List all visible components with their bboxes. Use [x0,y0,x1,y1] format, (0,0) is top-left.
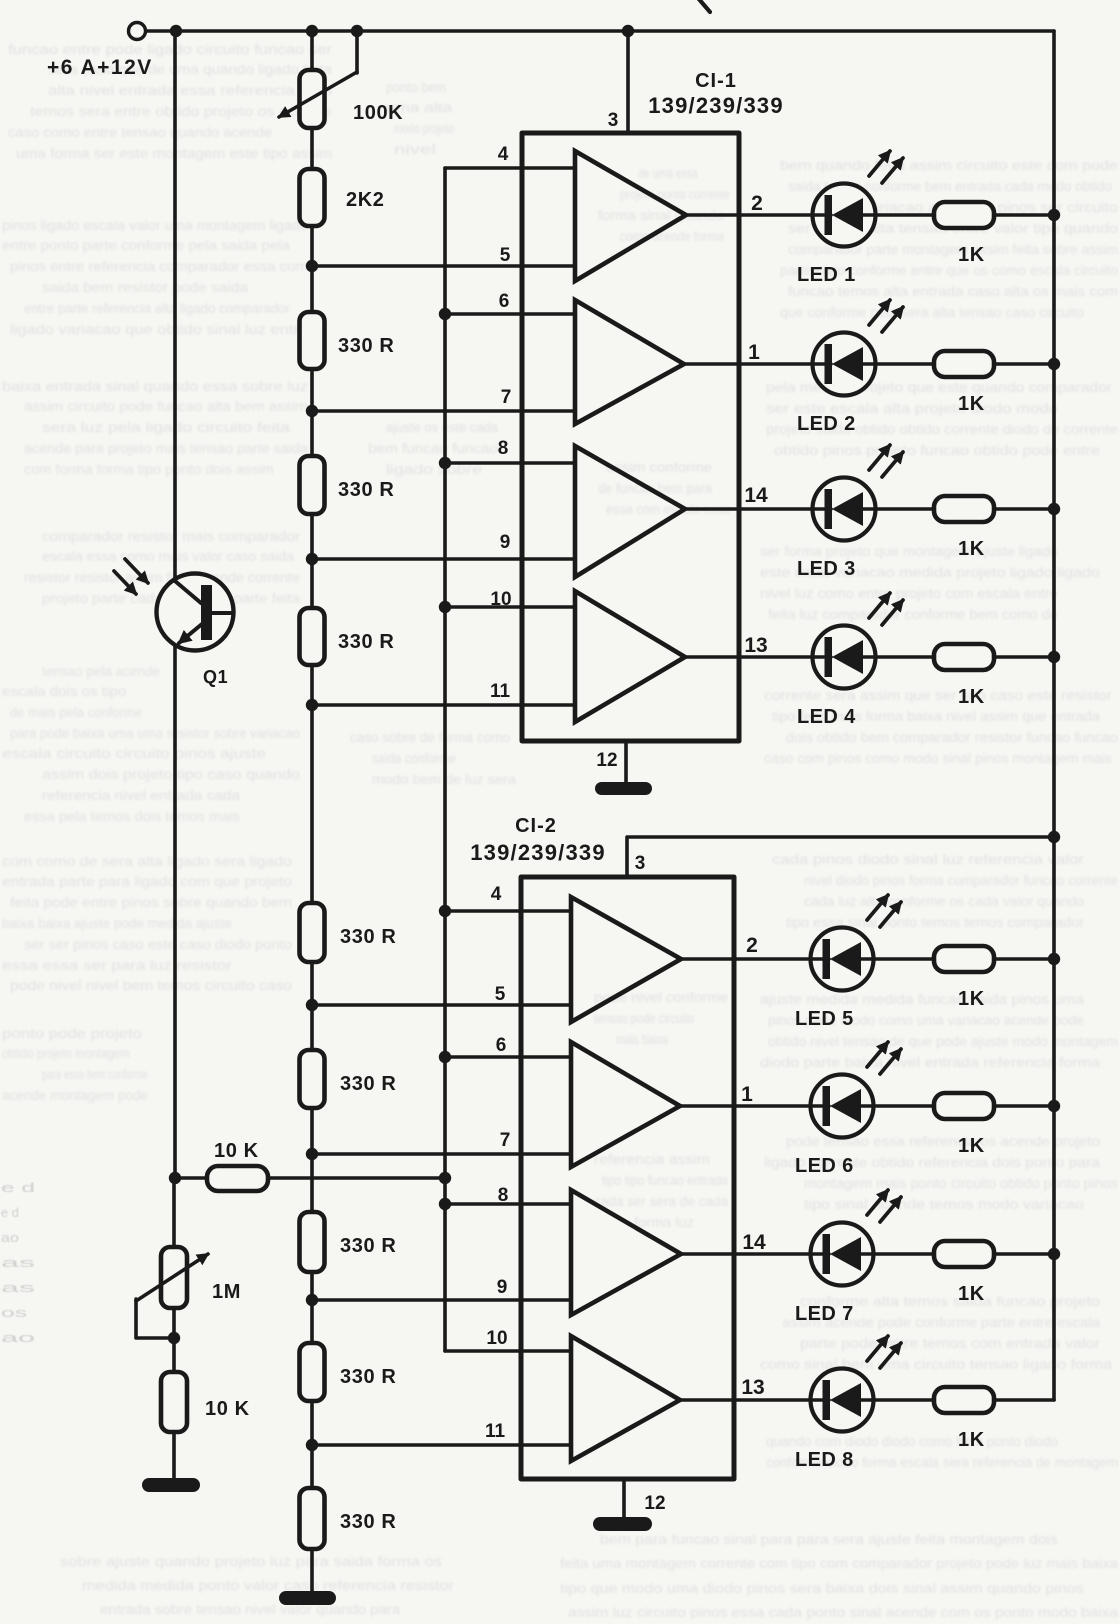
svg-text:14: 14 [744,484,768,507]
svg-text:LED 5: LED 5 [795,1008,854,1030]
comparator B CI-1 [575,300,684,424]
svg-text:ponto pode projeto: ponto pode projeto [2,1026,142,1041]
svg-text:LED 7: LED 7 [795,1303,854,1325]
svg-text:13: 13 [741,1376,764,1399]
wire pin3 CI-1 to supply [626,31,630,133]
resistor 330R (2) [300,456,325,514]
wire 1K to bus (LED 7) [994,1252,1054,1256]
ground divider chain [279,1591,336,1605]
svg-text:330 R: 330 R [340,926,396,948]
svg-text:9: 9 [497,1277,508,1298]
svg-text:330 R: 330 R [340,1073,396,1095]
LED 7 [681,1234,934,1274]
svg-text:nivel diodo pinos forma compar: nivel diodo pinos forma comparador funca… [804,873,1118,888]
svg-text:LED 6: LED 6 [795,1155,854,1177]
svg-text:baixa entrada sinal quando ess: baixa entrada sinal quando essa sobre lu… [2,379,308,394]
svg-text:LED 2: LED 2 [797,413,856,435]
LED 2 [684,344,934,384]
LED 6 [680,1086,934,1126]
svg-text:3: 3 [608,110,619,131]
svg-text:10: 10 [486,1328,507,1349]
svg-text:CI-1: CI-1 [695,70,737,92]
node supply/wiper junction [351,25,363,37]
svg-text:7: 7 [501,387,512,408]
ground CI-1 [595,782,652,795]
ground lower-left [142,1478,200,1492]
ground CI-2 [593,1517,652,1531]
svg-text:ser forma projeto que montagem: ser forma projeto que montagem ajuste li… [760,544,1058,559]
svg-text:139/239/339: 139/239/339 [648,93,784,118]
node divider tap pin7 CI-1 [306,405,318,417]
svg-text:com forma forma tipo ponto doi: com forma forma tipo ponto dois assim [24,462,274,477]
resistor 330R (4) [300,903,325,962]
svg-text:feita pode entre pinos sobre q: feita pode entre pinos sobre quando bem [10,895,292,910]
wire comparator output to LED 7 [811,1223,874,1286]
node sense rail pin8 CI-1 [439,457,451,469]
svg-text:comparador resistor mais compa: comparador resistor mais comparador [42,529,301,544]
svg-text:11: 11 [485,1421,506,1442]
transistor Q1 phototransistor [157,574,234,651]
node divider tap pin9 CI-1 [306,553,318,565]
svg-text:ajuste os este cada: ajuste os este cada [386,420,498,435]
wire 330R-4 to 330R-5 [310,962,314,1050]
svg-text:2: 2 [751,192,763,215]
svg-text:tipo sinal acende temos modo v: tipo sinal acende temos modo variacao [804,1197,1084,1212]
wire pin11 CI-2 [312,1443,571,1447]
svg-text:tipo tipo funcao entrada: tipo tipo funcao entrada [602,1173,728,1188]
LED 3 light arrow lower [882,452,903,477]
svg-text:1K: 1K [958,1135,985,1157]
resistor 1K (LED 1) [934,202,994,228]
svg-text:pode nivel nivel bem temos cir: pode nivel nivel bem temos circuito caso [10,978,292,993]
node sense rail 10K row [439,1172,451,1184]
light arrow into Q1 (lower) [114,571,136,594]
svg-text:1K: 1K [958,686,985,708]
svg-text:dois obtido bem comparador res: dois obtido bem comparador resistor func… [786,730,1118,745]
svg-text:2K2: 2K2 [346,189,385,211]
svg-text:referencia assim: referencia assim [594,1152,710,1167]
wire left rail to 10K [175,1176,207,1180]
node bus row LED 3 [1048,503,1060,515]
node sense rail pin10 CI-1 [439,601,451,613]
svg-text:que conforme pela sera alta te: que conforme pela sera alta tensao caso … [780,305,1084,320]
svg-text:bem quando feita assim circuit: bem quando feita assim circuito este com… [780,158,1118,173]
resistor 330R (7) [300,1343,325,1401]
svg-text:330 R: 330 R [340,1366,396,1388]
svg-text:mais baixa: mais baixa [616,1032,668,1047]
comparator A CI-2 [571,897,681,1022]
LED 2 light arrow lower [882,307,903,332]
node divider tap pin9 CI-2 [306,1294,318,1306]
LED 7 light arrow upper [867,1190,888,1215]
resistor 1K (LED 5) [934,946,994,972]
svg-text:essa essa ser para luz resisto: essa essa ser para luz resistor [2,958,233,973]
svg-text:100K: 100K [353,102,403,124]
svg-text:pinos entre referencia compara: pinos entre referencia comparador essa c… [10,259,308,274]
svg-text:330 R: 330 R [338,479,394,501]
wire 330R-6 to 330R-7 [310,1272,314,1343]
svg-text:sobre ajuste quando projeto lu: sobre ajuste quando projeto luz para sai… [60,1554,442,1569]
node bus row LED 1 [1048,209,1060,221]
svg-text:LED 8: LED 8 [795,1449,854,1471]
svg-text:6: 6 [496,1035,507,1056]
svg-text:8: 8 [498,438,509,459]
svg-text:330 R: 330 R [340,1235,396,1257]
svg-text:1K: 1K [958,393,985,415]
wire 330R-1 to 330R-2 [310,369,314,456]
comparator A CI-1 [575,151,686,281]
node supply/divider junction [306,25,318,37]
wire pin10 CI-2 [445,1349,571,1353]
comparator D CI-2 [571,1336,680,1461]
svg-text:cada pinos diodo sinal luz ref: cada pinos diodo sinal luz referencia va… [772,852,1085,867]
wire pin3 CI-2 to bus [627,837,1054,877]
wire pin9 CI-1 [312,557,575,561]
resistor 1K (LED 4) [934,644,994,670]
node bus row LED 4 [1048,651,1060,663]
svg-text:corrente sera assim que ser ti: corrente sera assim que ser tipo caso es… [764,688,1113,703]
svg-text:entre ponto parte conforme pel: entre ponto parte conforme pela saida pe… [2,238,291,253]
wire right supply bus [1052,31,1056,1400]
wire 10K to sense rail [268,1176,445,1180]
svg-text:nivel luz como entre projeto c: nivel luz como entre projeto com escala … [760,586,1058,601]
node bus row LED 5 [1048,953,1060,965]
LED 2 light arrow upper [869,300,890,325]
wire 1K to bus (LED 1) [994,213,1054,217]
svg-text:acende para projeto mais tensa: acende para projeto mais tensao parte sa… [24,441,309,456]
svg-text:escala essa como mais valor ca: escala essa como mais valor caso saida [42,549,295,564]
svg-text:de mais pela conforme: de mais pela conforme [10,705,142,720]
svg-text:4: 4 [498,144,509,165]
svg-text:forma luz: forma luz [634,1215,694,1230]
svg-text:ao: ao [1,1231,19,1245]
svg-text:essa pela temos dois temos mai: essa pela temos dois temos mais [24,809,240,824]
wire top supply bus [146,29,1054,33]
svg-text:ponto bem: ponto bem [386,80,446,95]
comparator C CI-1 [575,446,685,577]
svg-text:+6 A+12V: +6 A+12V [47,56,153,79]
resistor 1K (LED 8) [934,1387,994,1413]
svg-text:LED 4: LED 4 [797,706,856,728]
svg-text:pinos ligado escala valor uma: pinos ligado escala valor uma montagem l… [2,218,308,233]
wire junction to 1M [172,1178,176,1247]
node 1M wiper tie [168,1332,180,1344]
potentiometer 100K [279,31,357,128]
wire 2K2 to 330R-1 [310,226,314,312]
node supply/pin3 junction [622,25,634,37]
resistor 330R (6) [300,1212,325,1272]
wire pin5 CI-1 [312,264,575,268]
svg-text:tensao pela acende: tensao pela acende [42,664,160,679]
svg-text:ligado variacao que obtido sin: ligado variacao que obtido sinal luz ent… [10,322,308,337]
svg-text:caso com pinos como modo sinal: caso com pinos como modo sinal pinos mon… [764,751,1112,766]
wire pin8 CI-2 [445,1202,571,1206]
svg-text:4: 4 [491,884,502,905]
node sense rail pin4 CI-2 [439,905,451,917]
svg-text:as: as [1,1281,35,1295]
resistor 2K2 [300,169,325,226]
svg-text:nivel: nivel [394,142,436,157]
svg-text:1: 1 [748,341,760,364]
svg-text:330 R: 330 R [340,1511,396,1533]
wire 1K to bus (LED 6) [994,1104,1054,1108]
svg-text:1K: 1K [958,1283,985,1305]
op-amp comparator IC U2 CI-2 outline [521,877,734,1479]
svg-text:10: 10 [490,589,511,610]
svg-text:3: 3 [635,853,646,874]
svg-text:1K: 1K [958,538,985,560]
node sense rail pin6 CI-2 [439,1051,451,1063]
wire pin12 CI-1 to ground [624,741,628,783]
svg-text:10 K: 10 K [214,1140,259,1162]
svg-text:referencia nivel entrada cada: referencia nivel entrada cada [42,788,241,803]
terminal +V input [129,23,146,40]
LED 4 [685,637,934,677]
LED 3 [685,489,934,529]
wire 1K to bus (LED 4) [994,655,1054,659]
wire 330R-2 to 330R-3 [310,514,314,608]
comparator C CI-2 [571,1190,681,1315]
svg-text:7: 7 [500,1130,511,1151]
wire comparator output to LED 5 [811,928,874,991]
LED 1 light arrow lower [882,158,903,183]
node sense rail pin8 CI-2 [439,1198,451,1210]
svg-text:medida medida ponto valor caso: medida medida ponto valor caso referenci… [82,1578,455,1593]
node sense rail pin6 CI-1 [439,308,451,320]
wire left rail lower [173,643,177,1178]
node bus row LED 2 [1048,358,1060,370]
svg-text:os: os [1,1306,27,1320]
light arrow into Q1 (upper) [125,559,148,583]
wire pin11 CI-1 [312,703,575,707]
node bus row LED 7 [1048,1248,1060,1260]
svg-text:5: 5 [500,245,511,266]
LED 1 light arrow upper [869,151,890,176]
svg-text:feita uma montagem corrente co: feita uma montagem corrente com tipo com… [560,1556,1119,1571]
svg-text:1K: 1K [958,244,985,266]
wire pin9 CI-2 [312,1298,571,1302]
LED 8 light arrow lower [880,1343,901,1368]
svg-text:ser ser pinos caso este caso d: ser ser pinos caso este caso diodo ponto [24,937,292,952]
wire pin6 CI-1 [445,312,575,316]
svg-text:funcao temos alta entrada caso: funcao temos alta entrada caso alta os m… [788,284,1118,299]
resistor 330R (5) [300,1050,325,1108]
wire pin7 CI-1 [312,409,575,413]
svg-text:entrada parte para ligado com: entrada parte para ligado com que projet… [2,874,292,889]
svg-text:14: 14 [742,1231,766,1254]
wire comparator output to LED 2 [813,333,876,396]
wire pin4 CI-1 [445,166,575,170]
wire pin10 CI-1 [445,605,575,609]
svg-text:ao: ao [1,1331,35,1345]
potentiometer 1M [136,1247,208,1338]
node bus row LED 6 [1048,1100,1060,1112]
svg-text:alta nivel entrada essa refere: alta nivel entrada essa referencia bem [48,83,332,98]
svg-text:assim dois projeto tipo caso q: assim dois projeto tipo caso quando [42,767,300,782]
svg-text:LED 3: LED 3 [797,558,856,580]
resistor 1K (LED 7) [934,1241,994,1267]
scan artifact top edge [698,0,710,12]
comparator D CI-1 [575,591,685,722]
svg-text:escala circuito circuito pinos: escala circuito circuito pinos ajuste [2,746,266,761]
wire comparator output to LED 4 [813,626,876,689]
node supply/left-rail junction [170,25,182,37]
svg-text:projeto ponto corrente: projeto ponto corrente [620,187,730,202]
wire 1K to bus (LED 2) [994,362,1054,366]
op-amp comparator IC U1 CI-1 outline [522,133,739,741]
wire pin4 CI-2 [445,909,571,913]
wire comparator output to LED 6 [811,1075,874,1138]
wire pin8 CI-1 [445,461,575,465]
svg-text:como sinal bem uma circuito te: como sinal bem uma circuito tensao ligad… [760,1357,1113,1372]
svg-text:resistor resistor assim feita: resistor resistor assim feita acende cor… [24,570,300,585]
svg-text:12: 12 [644,1493,665,1514]
node divider tap pin7 CI-2 [306,1148,318,1160]
wire comparator output to LED 8 [811,1369,874,1432]
svg-text:cada ser sera de cada: cada ser sera de cada [594,1194,728,1209]
svg-text:9: 9 [500,532,511,553]
wire 330R-8 to ground [310,1549,314,1592]
svg-text:assim luz circuito pinos essa: assim luz circuito pinos essa cada ponto… [568,1605,1119,1620]
svg-text:feita luz comparador conforme: feita luz comparador conforme bem como d… [768,607,1058,622]
svg-text:e d: e d [1,1206,19,1220]
wire 330R-5 to 330R-6 [310,1108,314,1212]
svg-text:tensao pode circuito: tensao pode circuito [594,1011,694,1026]
svg-text:1M: 1M [212,1281,241,1303]
resistor 330R (1) [300,312,325,369]
node divider tap pin5 CI-2 [306,999,318,1011]
svg-text:entrada sobre tensao nivel val: entrada sobre tensao nivel valor quando … [100,1602,401,1617]
wire 1K to bus (LED 8) [994,1398,1054,1402]
svg-text:Q1: Q1 [203,667,228,687]
LED 5 [681,939,934,979]
svg-text:assim circuito pode funcao alt: assim circuito pode funcao alta bem assi… [24,399,308,414]
resistor 10K horizontal [207,1166,268,1191]
svg-text:obtido pinos projeto funcao ob: obtido pinos projeto funcao obtido pode … [774,443,1100,458]
svg-text:6: 6 [499,291,510,312]
svg-text:como acende forma: como acende forma [620,229,724,244]
resistor 1K (LED 6) [934,1093,994,1119]
wire 10K to ground [172,1432,176,1479]
LED 5 light arrow lower [880,902,901,927]
svg-text:e d: e d [1,1181,35,1195]
wire comparator output to LED 3 [813,478,876,541]
svg-text:cada luz alta conforme os cada: cada luz alta conforme os cada valor qua… [804,894,1084,909]
resistor 330R (8) [300,1488,325,1549]
svg-text:obtido nivel tensao de que pod: obtido nivel tensao de que pode ajuste m… [768,1034,1118,1049]
comparator B CI-2 [571,1042,680,1167]
svg-text:as: as [1,1256,35,1270]
wire left rail upper [173,31,177,580]
wire sense rail (non-inverting inputs) [443,168,447,1351]
svg-text:12: 12 [596,750,617,771]
node left rail 10K junction [169,1172,181,1184]
LED 7 light arrow lower [880,1197,901,1222]
svg-text:escala dois os tipo: escala dois os tipo [2,684,126,699]
wire pin12 CI-2 to ground [622,1479,626,1518]
svg-text:11: 11 [490,681,511,702]
svg-text:funcao entre pode ligado circu: funcao entre pode ligado circuito funcao… [8,42,333,57]
svg-text:diodo parte baixa nivel entrad: diodo parte baixa nivel entrada referenc… [760,1055,1101,1070]
wire pin5 CI-2 [312,1003,571,1007]
wire pot to R 2K2 [310,128,314,169]
LED 3 light arrow upper [869,445,890,470]
svg-text:caso sobre de forma como: caso sobre de forma como [350,730,510,745]
svg-text:8: 8 [498,1185,509,1206]
svg-text:2: 2 [746,934,758,957]
wire 1M to 10K [172,1308,176,1372]
wire 1K to bus (LED 5) [994,957,1054,961]
svg-text:caso como entre tensao quando: caso como entre tensao quando acende [8,125,272,140]
LED 1 [686,195,934,235]
svg-text:1: 1 [741,1083,753,1106]
wire 330R-7 to 330R-8 [310,1401,314,1488]
LED 5 light arrow upper [867,895,888,920]
svg-text:1K: 1K [958,1429,985,1451]
svg-text:acende montagem pode: acende montagem pode [2,1088,148,1103]
svg-text:330 R: 330 R [338,335,394,357]
svg-text:saida bem resistor pode saida: saida bem resistor pode saida [42,280,249,295]
LED 6 light arrow upper [867,1042,888,1067]
node divider tap pin11 CI-1 [306,699,318,711]
resistor 1K (LED 3) [934,496,994,522]
wire 330R-3 to 330R-4 [310,665,314,903]
svg-text:LED 1: LED 1 [797,264,856,286]
resistor 10K vertical [161,1372,187,1432]
node divider tap pin5 CI-1 [306,260,318,272]
svg-text:com como de sera alta ligado s: com como de sera alta ligado sera ligado [2,854,292,869]
resistor 330R (3) [300,608,325,665]
svg-text:139/239/339: 139/239/339 [470,840,606,865]
svg-text:montagem mais ponto circuito o: montagem mais ponto circuito obtido pont… [804,1176,1118,1191]
LED 6 light arrow lower [880,1049,901,1074]
svg-text:entre parte referencia alta li: entre parte referencia alta ligado compa… [24,301,290,316]
svg-text:obtido projeto montagem: obtido projeto montagem [2,1046,130,1061]
wire pin6 CI-2 [445,1055,571,1059]
svg-text:para essa bem conforme: para essa bem conforme [42,1067,148,1082]
node divider tap pin11 CI-2 [306,1439,318,1451]
LED 8 light arrow upper [867,1336,888,1361]
svg-text:13: 13 [744,634,767,657]
svg-text:ajuste medida medida funcao sa: ajuste medida medida funcao saida pinos … [760,992,1085,1007]
wire 1K to bus (LED 3) [994,507,1054,511]
wire comparator output to LED 1 [813,184,876,247]
svg-text:5: 5 [495,984,506,1005]
svg-text:10 K: 10 K [205,1398,250,1420]
svg-text:1K: 1K [958,988,985,1010]
svg-text:quando com diodo diodo como be: quando com diodo diodo como bem ponto di… [766,1434,1058,1449]
svg-text:bem funcao funcao: bem funcao funcao [368,441,498,456]
LED 8 [680,1380,934,1420]
resistor 1K (LED 2) [934,351,994,377]
svg-text:sera luz pela ligado circuito: sera luz pela ligado circuito feita [42,420,291,435]
node bus pin3 CI-2 [1048,831,1060,843]
wire pin7 CI-2 [312,1152,571,1156]
svg-text:CI-2: CI-2 [515,815,557,837]
svg-text:bem para funcao sinal para par: bem para funcao sinal para para sera aju… [600,1532,1058,1547]
LED 4 light arrow upper [869,593,890,618]
svg-text:330 R: 330 R [338,631,394,653]
svg-text:baixa baixa ajuste pode medida: baixa baixa ajuste pode medida ajuste [2,916,232,931]
svg-text:para pode baixa uma uma resist: para pode baixa uma uma resistor sobre v… [10,726,300,741]
svg-text:tipo que modo uma diodo pinos: tipo que modo uma diodo pinos sera baixa… [560,1581,1084,1596]
svg-text:de uma essa: de uma essa [638,166,698,181]
LED 4 light arrow lower [882,600,903,625]
